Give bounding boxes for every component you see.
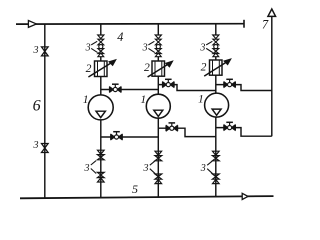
- pipe: bottom manifold line 5: [20, 196, 274, 198]
- svg-text:1: 1: [83, 93, 89, 106]
- check valve (branch 2 suction upper): [155, 151, 162, 161]
- svg-text:3: 3: [85, 42, 91, 53]
- control valve 2 (branch 2): [148, 61, 173, 77]
- needle valve (branch 3 lower): [224, 122, 236, 130]
- label 3 with leaders (branch 1 top): [85, 42, 91, 53]
- svg-text:5: 5: [132, 182, 138, 196]
- svg-text:2: 2: [201, 60, 207, 73]
- pipe: lower tap branch 1 to branch 2: [101, 136, 159, 138]
- needle valve (branch 3 discharge): [224, 79, 236, 87]
- pipe: branch 1 suction vertical: [100, 120, 102, 198]
- pump 1 (branch 1): [88, 95, 113, 120]
- pipe: discharge tap branch 2: [158, 85, 216, 91]
- check valve (branch 3 suction lower): [212, 174, 219, 184]
- svg-text:3: 3: [142, 42, 148, 53]
- shut-off valve 3 (left lower): [42, 144, 49, 153]
- pipe: [215, 57, 217, 60]
- check valve (branch 3 suction upper): [212, 151, 219, 161]
- svg-text:7: 7: [262, 18, 269, 32]
- pump 1 (branch 2): [146, 94, 170, 118]
- check valve stack branch 1: [98, 35, 104, 57]
- check valve (branch 1 suction lower): [97, 172, 104, 182]
- needle valve (branch 2 lower): [166, 123, 178, 131]
- svg-text:1: 1: [140, 93, 146, 106]
- svg-text:2: 2: [144, 61, 150, 74]
- pipe: [157, 76, 159, 94]
- outlet arrow 7: [268, 9, 276, 16]
- pipe: [100, 77, 102, 96]
- svg-text:4: 4: [117, 30, 123, 44]
- pipe: lower tap branch 2: [158, 128, 216, 136]
- pipe: branch 2 vertical: [157, 24, 159, 35]
- shut-off valve 3 (left upper): [42, 47, 49, 56]
- svg-text:2: 2: [86, 62, 92, 75]
- svg-text:3: 3: [143, 163, 149, 174]
- pipe: branch 1 vertical: [100, 24, 102, 35]
- outlet flow arrow on line 5: [242, 193, 248, 199]
- pipe: branch 3 vertical: [215, 24, 217, 36]
- svg-text:3: 3: [199, 42, 205, 53]
- svg-text:3: 3: [84, 163, 90, 174]
- svg-text:1: 1: [198, 92, 204, 105]
- needle valve (branch 1 discharge): [110, 84, 122, 92]
- pipe: branch 2 suction vertical: [157, 118, 159, 197]
- pipe: discharge tap branch 3 to riser: [216, 85, 272, 91]
- check valve (branch 1 suction upper): [97, 150, 104, 160]
- svg-text:3: 3: [33, 45, 39, 56]
- pipe: [157, 57, 159, 61]
- needle valve (branch 1 lower): [111, 132, 123, 140]
- pump 1 (branch 3): [205, 93, 229, 117]
- needle valve (branch 2 discharge): [163, 79, 175, 87]
- pipe: branch 3 suction vertical: [215, 117, 217, 197]
- check valve stack branch 2: [155, 35, 161, 57]
- check valve (branch 2 suction lower): [155, 174, 162, 184]
- svg-text:3: 3: [33, 140, 39, 151]
- control valve 2 (branch 1): square with diagonal arrow: [88, 60, 115, 77]
- pipe: top manifold line 4: [16, 23, 244, 25]
- pipe: discharge tap branch 1 to branch 2: [101, 89, 159, 91]
- pipe: lower tap branch 3 to riser: [216, 128, 272, 137]
- control valve 2 (branch 3): [204, 59, 230, 76]
- pipe: outlet riser 7: [271, 16, 273, 136]
- svg-text:6: 6: [33, 97, 41, 114]
- pipe: [100, 57, 102, 61]
- pipe: [215, 75, 217, 93]
- check valve stack branch 3: [213, 35, 219, 57]
- end tick of line 4: [243, 20, 245, 28]
- pipe: left bypass line 6: [44, 24, 46, 198]
- svg-text:3: 3: [200, 163, 206, 174]
- inlet flow arrow on line 4: [28, 21, 36, 28]
